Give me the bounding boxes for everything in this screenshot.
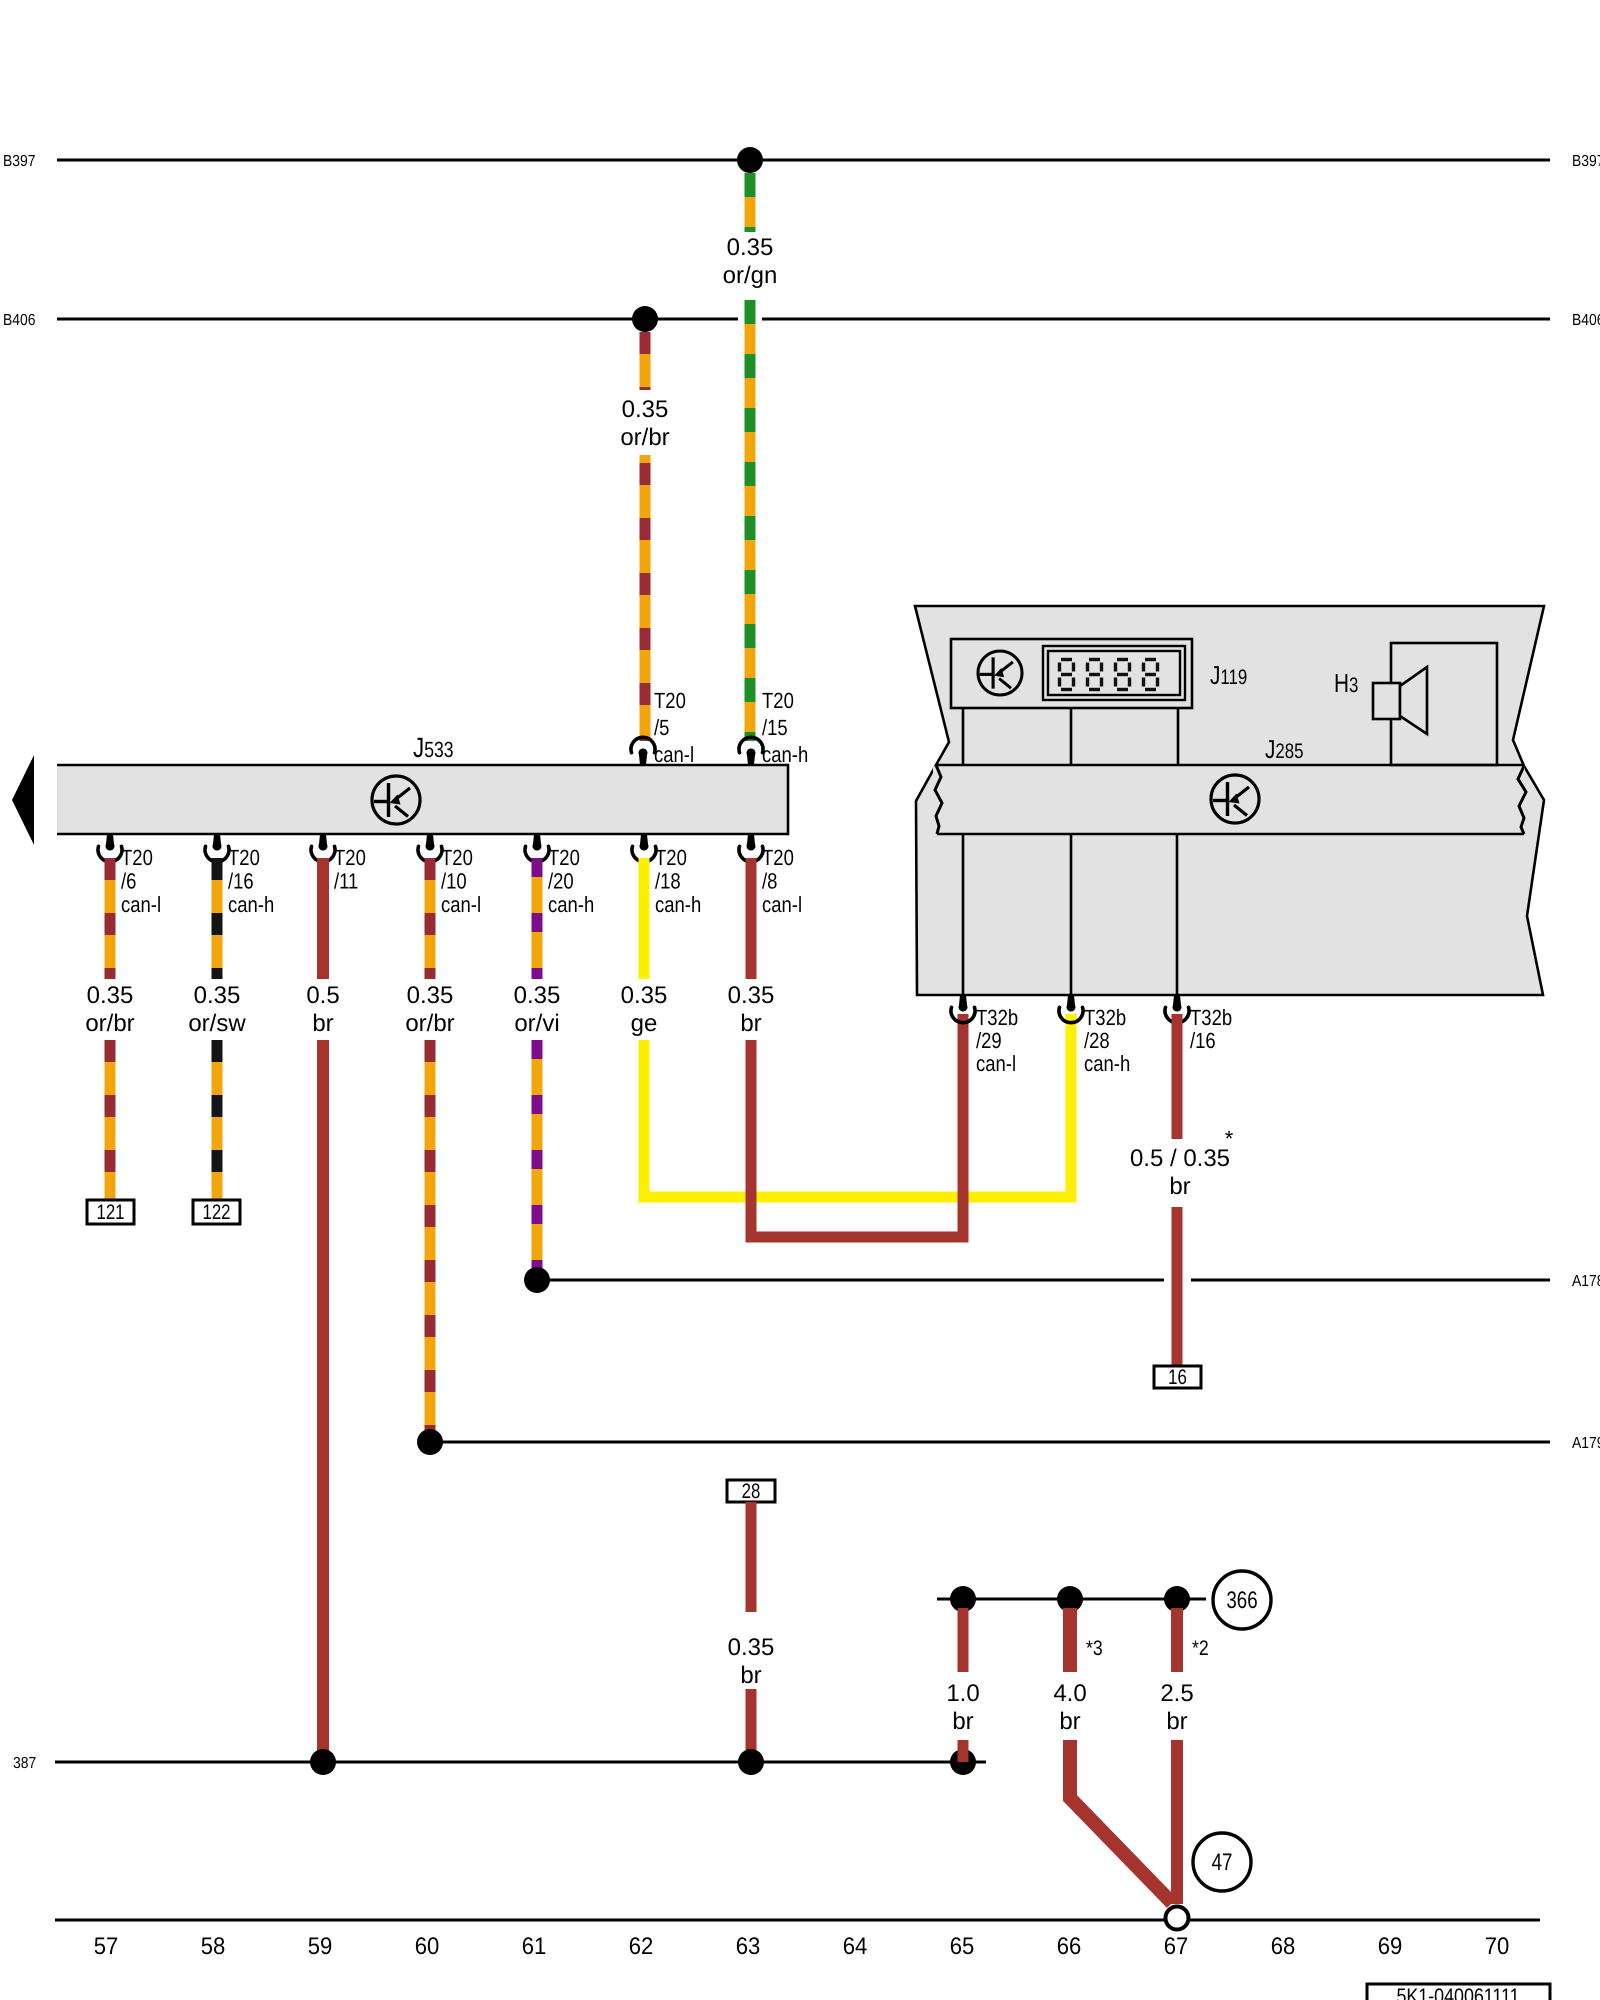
svg-text:*2: *2 — [1192, 1637, 1209, 1660]
wire stub 0.35 or/br col60 — [425, 858, 436, 979]
label T32b/28 can-h — [1084, 1005, 1130, 1076]
connector T20/5 on J533 top — [631, 737, 655, 765]
wire 1.0 br col65 upper — [958, 1608, 969, 1672]
wire label 2.5 br — [1160, 1680, 1193, 1735]
connector T20/8 on J533 bottom — [739, 834, 763, 862]
svg-text:/8: /8 — [762, 869, 777, 894]
ground connection point symbol — [1166, 1907, 1189, 1930]
wire 0.35 or/br col60 lower to node A179 — [425, 1040, 436, 1442]
connector T20/15 on J533 top — [739, 737, 763, 765]
svg-text:66: 66 — [1057, 1933, 1082, 1960]
internal connection lines band to J285 bottom — [963, 834, 1177, 995]
wire stub 0.35 br col63 — [746, 858, 757, 979]
node B406 label right — [1572, 312, 1600, 329]
svg-text:can-h: can-h — [655, 892, 701, 917]
control unit J533 gateway box — [57, 764, 788, 836]
connector T20/18 on J533 bottom — [632, 834, 656, 862]
connector T20/6 on J533 bottom — [98, 834, 122, 862]
wire 0.35 or/sw col58 lower to terminal 122 — [212, 1040, 223, 1200]
svg-text:can-l: can-l — [121, 892, 161, 917]
svg-text:or/sw: or/sw — [188, 1010, 246, 1037]
svg-text:0.5: 0.5 — [306, 982, 339, 1009]
svg-text:60: 60 — [415, 1933, 440, 1960]
svg-text:T20: T20 — [228, 845, 260, 870]
svg-text:69: 69 — [1378, 1933, 1403, 1960]
connector T32b/29 on J285 bottom — [951, 995, 975, 1023]
svg-text:br: br — [312, 1010, 333, 1037]
wire label 0.35 br col63 — [728, 982, 775, 1037]
junction dot A179 at or/br wire — [417, 1429, 443, 1455]
wire 2.5 br col67 upper — [1171, 1608, 1183, 1672]
svg-text:T32b: T32b — [1190, 1005, 1232, 1030]
label T20/16 can-h — [228, 845, 274, 917]
svg-text:/28: /28 — [1084, 1028, 1110, 1053]
svg-text:/18: /18 — [655, 869, 681, 894]
terminal box 122 — [193, 1200, 240, 1224]
svg-text:T20: T20 — [548, 845, 580, 870]
label T32b/16 — [1190, 1005, 1232, 1053]
J533 label — [413, 732, 454, 763]
wire stub 0.35 or/sw col58 — [212, 858, 223, 979]
wire stub 0.35 or/vi col61 — [532, 858, 543, 979]
label *3 — [1086, 1637, 1103, 1660]
svg-text:/16: /16 — [1190, 1028, 1216, 1053]
svg-text:T20: T20 — [121, 845, 153, 870]
label T20/15 can-h — [762, 688, 808, 767]
svg-text:28: 28 — [742, 1480, 761, 1503]
svg-text:can-h: can-h — [548, 892, 594, 917]
wire stub 0.35 ge col62 — [639, 858, 650, 979]
svg-text:0.35: 0.35 — [622, 396, 669, 423]
wire label 0.35 br col63 lower — [728, 1634, 775, 1689]
svg-text:*3: *3 — [1086, 1637, 1103, 1660]
wire label 0.35 or/gn — [723, 234, 778, 289]
svg-text:59: 59 — [308, 1933, 333, 1960]
connector T20/10 on J533 bottom — [418, 834, 442, 862]
horn H3 outline box — [1391, 643, 1497, 765]
svg-text:br: br — [740, 1010, 761, 1037]
wire bus line B397 — [57, 159, 1550, 162]
display unit J119 sub-box — [951, 639, 1192, 708]
ground bus line 387 — [55, 1761, 986, 1764]
svg-text:2.5: 2.5 — [1160, 1680, 1193, 1707]
svg-text:/15: /15 — [762, 715, 788, 740]
node B406 label left — [3, 312, 36, 329]
wire 0.35 or/vi col61 lower to node A178 — [532, 1040, 543, 1280]
svg-text:can-l: can-l — [441, 892, 481, 917]
svg-text:can-l: can-l — [762, 892, 802, 917]
svg-text:1.0: 1.0 — [946, 1680, 979, 1707]
svg-text:T32b: T32b — [1084, 1005, 1126, 1030]
svg-text:/20: /20 — [548, 869, 574, 894]
connector T32b/28 on J285 bottom — [1059, 995, 1083, 1023]
J285 label — [1265, 734, 1303, 764]
J285 control unit symbol in band — [1211, 775, 1259, 823]
wire label 0.5 br col59 — [306, 982, 339, 1037]
svg-text:/5: /5 — [654, 715, 669, 740]
svg-text:0.35: 0.35 — [728, 982, 775, 1009]
wire 1.0 br col65 lower — [958, 1740, 969, 1762]
label T20/20 can-h — [548, 845, 594, 917]
svg-text:or/br: or/br — [405, 1010, 454, 1037]
node B397 label left — [3, 153, 36, 170]
wire 0.5/0.35 br lower segment to terminal 16 — [1172, 1207, 1183, 1366]
terminal box 16 — [1154, 1366, 1201, 1389]
wire label 1.0 br — [946, 1680, 979, 1735]
label T20/18 can-h — [655, 845, 701, 917]
junction dot 366 col66 — [1057, 1586, 1083, 1612]
svg-text:64: 64 — [843, 1933, 868, 1960]
label *2 — [1192, 1637, 1209, 1660]
node 387 label — [13, 1755, 36, 1772]
wire label 0.35 or/sw col58 — [188, 982, 246, 1037]
ground designation circle 366 — [1213, 1571, 1271, 1629]
wire bus line A178 (gap at T32b/16 wire crossing) — [537, 1279, 1550, 1282]
junction dot on B397 — [737, 147, 763, 173]
junction dot A178 at or/vi wire — [524, 1267, 550, 1293]
svg-text:61: 61 — [522, 1933, 547, 1960]
svg-text:366: 366 — [1226, 1587, 1257, 1614]
svg-text:B406: B406 — [3, 312, 36, 329]
svg-text:T20: T20 — [762, 688, 794, 713]
connector T32b/16 on J285 bottom — [1165, 995, 1189, 1023]
svg-text:16: 16 — [1168, 1366, 1187, 1389]
connector T20/11 on J533 bottom — [311, 834, 335, 862]
terminal box 28 — [727, 1480, 775, 1503]
svg-text:can-h: can-h — [1084, 1051, 1130, 1076]
wire label 0.35 or/br col60 — [405, 982, 454, 1037]
svg-text:br: br — [1059, 1708, 1080, 1735]
ground bus line 366 — [937, 1598, 1206, 1601]
svg-text:A179: A179 — [1572, 1435, 1600, 1452]
svg-text:/6: /6 — [121, 869, 136, 894]
svg-text:58: 58 — [201, 1933, 226, 1960]
svg-text:/16: /16 — [228, 869, 254, 894]
connector T20/20 on J533 bottom — [525, 834, 549, 862]
horn H3 speaker symbol — [1373, 667, 1427, 734]
wire 4.0 br col66 lower diagonal to ground point — [1070, 1740, 1172, 1903]
svg-text:T20: T20 — [334, 845, 366, 870]
svg-text:4.0: 4.0 — [1053, 1680, 1086, 1707]
svg-text:T20: T20 — [762, 845, 794, 870]
svg-text:65: 65 — [950, 1933, 975, 1960]
J119 digital display 8888 — [1043, 646, 1185, 700]
svg-text:0.35: 0.35 — [87, 982, 134, 1009]
connector T20/16 on J533 bottom — [205, 834, 229, 862]
label T20/8 can-l — [762, 845, 802, 917]
svg-text:J533: J533 — [413, 732, 454, 763]
svg-text:/10: /10 — [441, 869, 467, 894]
svg-text:br: br — [1169, 1173, 1190, 1200]
node B397 label right — [1572, 153, 1600, 170]
label T20/10 can-l — [441, 845, 481, 917]
svg-text:122: 122 — [202, 1201, 230, 1224]
label T20/6 can-l — [121, 845, 161, 917]
svg-text:63: 63 — [736, 1933, 761, 1960]
wire label 4.0 br — [1053, 1680, 1086, 1735]
svg-text:T32b: T32b — [976, 1005, 1018, 1030]
wire stub 0.35 or/br col57 — [105, 858, 116, 979]
svg-text:0.5 / 0.35: 0.5 / 0.35 — [1130, 1145, 1230, 1172]
svg-text:br: br — [740, 1662, 761, 1689]
terminal box 121 — [87, 1200, 134, 1224]
node A178 label right — [1572, 1273, 1600, 1290]
svg-text:70: 70 — [1485, 1933, 1510, 1960]
label T32b/29 can-l — [976, 1005, 1018, 1076]
svg-text:0.35: 0.35 — [407, 982, 454, 1009]
svg-text:/11: /11 — [334, 869, 358, 894]
svg-text:68: 68 — [1271, 1933, 1296, 1960]
wire label 0.35 or/br — [620, 396, 669, 451]
J285 control unit band with torn ends — [933, 765, 1526, 834]
junction dot 387 col59 — [310, 1749, 336, 1775]
svg-text:or/vi: or/vi — [514, 1010, 559, 1037]
svg-text:/29: /29 — [976, 1028, 1002, 1053]
svg-text:T20: T20 — [441, 845, 473, 870]
svg-text:B397: B397 — [1572, 153, 1600, 170]
wire bus line B406 (gap at or/gn crossing) — [57, 318, 1550, 321]
continuation arrow left of J533 — [12, 755, 34, 845]
wire 4.0 br col66 upper — [1063, 1608, 1077, 1672]
svg-text:0.35: 0.35 — [194, 982, 241, 1009]
wire label 0.5 / 0.35 * br — [1130, 1126, 1234, 1200]
wire label 0.35 ge col62 — [621, 982, 668, 1037]
wire 0.35 or/br col57 lower to terminal 121 — [105, 1040, 116, 1200]
svg-text:57: 57 — [94, 1933, 119, 1960]
svg-text:or/gn: or/gn — [723, 262, 778, 289]
wire 0.5 br col59 lower to ground 387 — [317, 1040, 329, 1762]
wire 0.35 br to ground 387 — [746, 1689, 757, 1762]
J119 control unit symbol — [978, 651, 1022, 695]
junction dot 387 col65 — [950, 1749, 976, 1775]
wire bus line A179 — [430, 1441, 1550, 1444]
bottom reference line — [55, 1919, 1540, 1922]
svg-text:5K1-040061111: 5K1-040061111 — [1396, 1985, 1519, 2000]
svg-text:0.35: 0.35 — [621, 982, 668, 1009]
svg-text:or/br: or/br — [85, 1010, 134, 1037]
wire 0.35 or/gn from B397 to J533 T20/15 — [745, 173, 756, 741]
wire 0.35 ge can-h route T20/18 to T32b/28 — [644, 1014, 1071, 1197]
svg-text:can-h: can-h — [762, 742, 808, 767]
svg-text:can-h: can-h — [228, 892, 274, 917]
junction dot 366 col67 — [1164, 1586, 1190, 1612]
H3 label — [1334, 668, 1358, 698]
svg-text:0.35: 0.35 — [728, 1634, 775, 1661]
wire 0.35 br from terminal 28 upper segment — [746, 1502, 757, 1612]
svg-text:387: 387 — [13, 1755, 36, 1772]
svg-text:T20: T20 — [654, 688, 686, 713]
svg-text:47: 47 — [1212, 1849, 1233, 1876]
wire stub 0.5 br col59 — [317, 858, 329, 979]
svg-text:0.35: 0.35 — [514, 982, 561, 1009]
junction dot on B406 — [632, 306, 658, 332]
svg-text:0.35: 0.35 — [727, 234, 774, 261]
label T20/5 can-l — [654, 688, 694, 767]
svg-text:br: br — [1166, 1708, 1187, 1735]
component J285 instrument cluster housing — [915, 606, 1544, 995]
svg-text:br: br — [952, 1708, 973, 1735]
J533 control unit symbol — [372, 776, 420, 824]
wire label 0.35 or/br col57 — [85, 982, 134, 1037]
wire 0.35 br can-l route T20/8 to T32b/29 — [751, 1014, 963, 1237]
wire 0.5/0.35 br from T32b/16 upper segment — [1172, 1014, 1183, 1139]
grid coordinate numbers 57-70 — [94, 1933, 1510, 1960]
svg-text:A178: A178 — [1572, 1273, 1600, 1290]
svg-text:T20: T20 — [655, 845, 687, 870]
svg-text:B406: B406 — [1572, 312, 1600, 329]
svg-text:or/br: or/br — [620, 424, 669, 451]
J119 label — [1210, 660, 1247, 690]
svg-text:*: * — [1225, 1126, 1234, 1151]
wire label 0.35 or/vi col61 — [514, 982, 561, 1037]
junction dot 387 col63 — [738, 1749, 764, 1775]
wire 0.35 or/br from B406 to J533 T20/5 — [640, 332, 651, 741]
internal connection lines J119/H3 to band — [963, 708, 1178, 765]
svg-text:62: 62 — [629, 1933, 654, 1960]
junction dot 366 col65 — [950, 1586, 976, 1612]
svg-text:B397: B397 — [3, 153, 36, 170]
label T20/11 — [334, 845, 366, 894]
svg-text:67: 67 — [1164, 1933, 1189, 1960]
svg-text:121: 121 — [96, 1201, 124, 1224]
diagram code box 5K1-040061111 — [1367, 1984, 1550, 2000]
ground designation circle 47 — [1193, 1833, 1251, 1891]
wire 2.5 br col67 lower — [1171, 1740, 1183, 1904]
node A179 label right — [1572, 1435, 1600, 1452]
svg-text:can-l: can-l — [654, 742, 694, 767]
svg-text:ge: ge — [631, 1010, 658, 1037]
svg-text:can-l: can-l — [976, 1051, 1016, 1076]
